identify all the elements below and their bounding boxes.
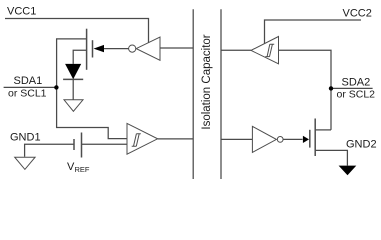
svg-text:VCC1: VCC1 [7,6,36,18]
svg-text:GND1: GND1 [10,132,41,144]
svg-text:VCC2: VCC2 [343,8,372,20]
svg-text:Isolation Capacitor: Isolation Capacitor [201,34,213,129]
svg-text:or SCL2: or SCL2 [337,89,376,101]
svg-text:or SCL1: or SCL1 [8,88,47,100]
svg-text:REF: REF [75,165,90,174]
svg-text:SDA2: SDA2 [342,77,371,89]
svg-text:SDA1: SDA1 [14,75,43,87]
svg-text:GND2: GND2 [346,139,377,151]
